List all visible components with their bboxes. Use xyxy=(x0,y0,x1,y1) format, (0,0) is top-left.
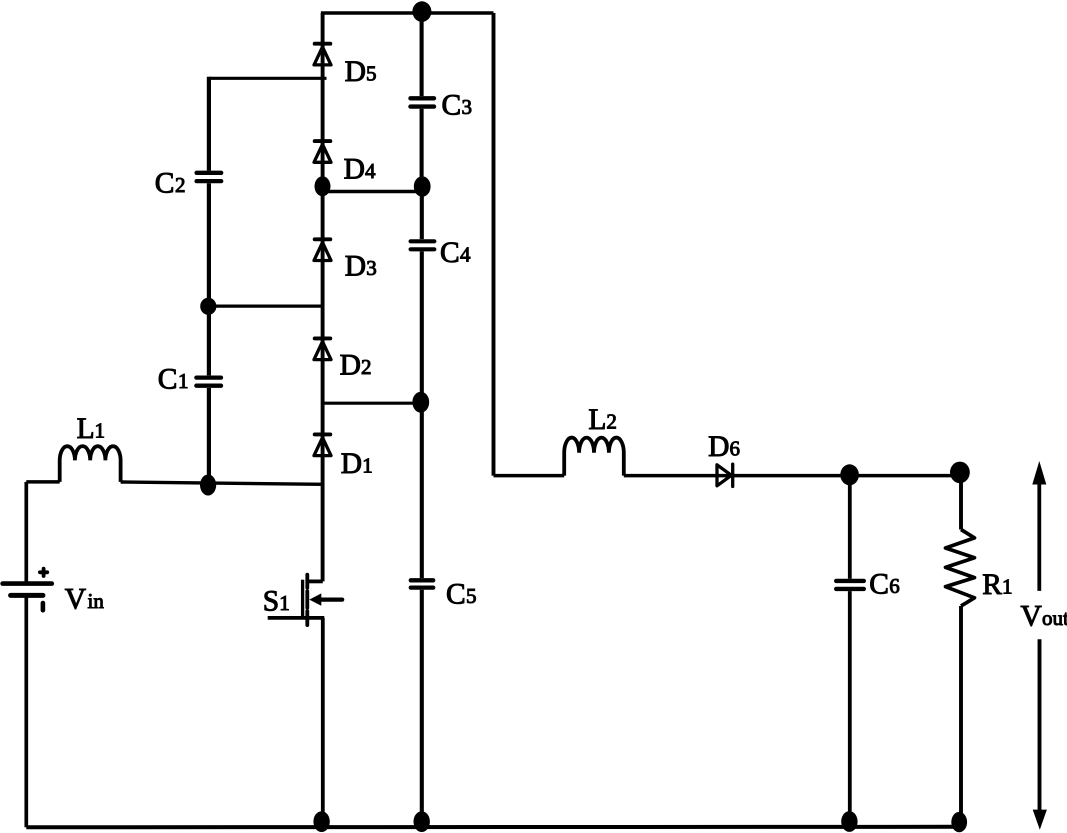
resistor R1 xyxy=(946,473,975,827)
wire C5 column xyxy=(420,403,424,827)
svg-text:in: in xyxy=(88,589,105,613)
Vout arrow upper xyxy=(1032,461,1046,591)
svg-text:C: C xyxy=(155,168,175,200)
node top-rail junction xyxy=(412,1,431,22)
label C3 xyxy=(442,90,473,122)
svg-text:5: 5 xyxy=(466,584,477,608)
wire C1 column xyxy=(207,306,211,484)
node bottom rail C5 xyxy=(414,811,430,832)
node R1 top junction xyxy=(950,462,970,484)
wire C4 column xyxy=(420,186,424,403)
inductor L2 xyxy=(564,438,624,476)
wire top rail xyxy=(321,11,494,14)
wire right vertical from top rail xyxy=(492,13,496,476)
svg-text:C: C xyxy=(158,363,178,395)
diode D1 xyxy=(314,434,331,455)
svg-text:4: 4 xyxy=(365,159,376,183)
transistor S1 (MOSFET) xyxy=(268,575,343,828)
svg-text:V: V xyxy=(65,584,86,616)
svg-text:3: 3 xyxy=(366,256,377,280)
wire L1 to diode column xyxy=(121,482,323,484)
label C6 xyxy=(869,569,900,601)
svg-text:5: 5 xyxy=(366,62,377,86)
svg-text:out: out xyxy=(1042,606,1067,630)
svg-text:2: 2 xyxy=(606,410,617,434)
label D2 xyxy=(340,350,372,382)
label L1 xyxy=(77,413,105,445)
node bottom rail R1 xyxy=(951,812,967,832)
wire C2 top horizontal xyxy=(209,77,327,80)
capacitor C1 xyxy=(196,378,221,386)
svg-text:D: D xyxy=(341,448,362,480)
label L2 xyxy=(588,404,617,436)
svg-text:D: D xyxy=(345,251,366,283)
wire left branch vertical xyxy=(24,482,28,827)
node C2-C1 junction xyxy=(200,298,216,315)
wire C2-C1 to D3-D2 junction horizontal xyxy=(209,305,323,308)
svg-text:L: L xyxy=(77,413,95,445)
svg-text:C: C xyxy=(446,579,466,611)
svg-text:C: C xyxy=(440,237,460,269)
label D1 xyxy=(341,448,373,480)
diode D4 xyxy=(314,141,331,162)
svg-text:S: S xyxy=(263,586,279,618)
node C3-C4 junction xyxy=(414,176,431,197)
diode D3 xyxy=(314,239,331,260)
svg-text:1: 1 xyxy=(95,418,106,442)
label D6 xyxy=(708,431,740,463)
svg-text:D: D xyxy=(708,431,729,463)
wire right rail to L2 xyxy=(494,474,565,478)
label D5 xyxy=(345,56,377,88)
svg-text:D: D xyxy=(345,56,366,88)
wire C2 column xyxy=(207,77,211,306)
inductor L1 xyxy=(60,446,121,482)
wire diode column x=322.5 from top rail to MOSFET drain xyxy=(321,13,325,581)
label R1 xyxy=(982,569,1012,601)
svg-text:1: 1 xyxy=(1002,574,1013,598)
capacitor C4 xyxy=(411,241,435,249)
node C1 bottom junction on main wire xyxy=(200,475,216,496)
label D3 xyxy=(345,251,377,283)
battery Vin xyxy=(3,569,52,611)
svg-text:6: 6 xyxy=(889,574,900,598)
svg-text:C: C xyxy=(442,90,462,122)
node bottom rail MOSFET source xyxy=(313,811,329,832)
node bottom rail C6 xyxy=(841,811,857,832)
svg-text:1: 1 xyxy=(279,591,290,615)
svg-text:C: C xyxy=(869,569,889,601)
label Vin xyxy=(65,584,105,616)
Vout arrow lower xyxy=(1033,639,1047,830)
capacitor C5 xyxy=(411,580,433,587)
svg-text:1: 1 xyxy=(362,454,373,478)
wire D4-C4 junction horizontal xyxy=(323,190,423,193)
label Vout xyxy=(1021,601,1067,633)
label C2 xyxy=(155,168,186,200)
node diode column at D4 xyxy=(315,176,331,196)
label C1 xyxy=(158,363,189,395)
svg-text:3: 3 xyxy=(462,95,473,119)
capacitor C6 xyxy=(836,581,864,589)
wire D2-D1 to C4-C5 junction horizontal xyxy=(323,402,422,405)
label D4 xyxy=(344,154,376,186)
svg-text:1: 1 xyxy=(178,369,189,393)
svg-text:2: 2 xyxy=(361,355,372,379)
svg-text:R: R xyxy=(982,569,1002,601)
label S1 xyxy=(263,586,290,618)
capacitor C3 xyxy=(411,98,435,106)
svg-text:L: L xyxy=(588,404,606,436)
label C5 xyxy=(446,579,477,611)
svg-text:2: 2 xyxy=(175,173,186,197)
wire L2 to D6 to output node xyxy=(624,474,961,478)
label C4 xyxy=(440,237,471,269)
node C6 top junction xyxy=(840,464,859,485)
svg-text:4: 4 xyxy=(460,243,471,267)
wire bottom rail xyxy=(26,825,960,830)
diode D6 xyxy=(717,464,733,486)
svg-text:V: V xyxy=(1021,601,1042,633)
svg-text:D: D xyxy=(344,154,365,186)
wire C3 column xyxy=(420,13,424,186)
wire main input horizontal xyxy=(26,480,59,484)
svg-text:D: D xyxy=(340,350,361,382)
diode D2 xyxy=(314,338,331,359)
svg-text:6: 6 xyxy=(730,436,741,460)
capacitor C2 xyxy=(197,173,222,181)
node C4-C5 junction xyxy=(412,392,429,413)
diode D5 xyxy=(314,44,331,65)
wire C6 column xyxy=(848,476,852,828)
